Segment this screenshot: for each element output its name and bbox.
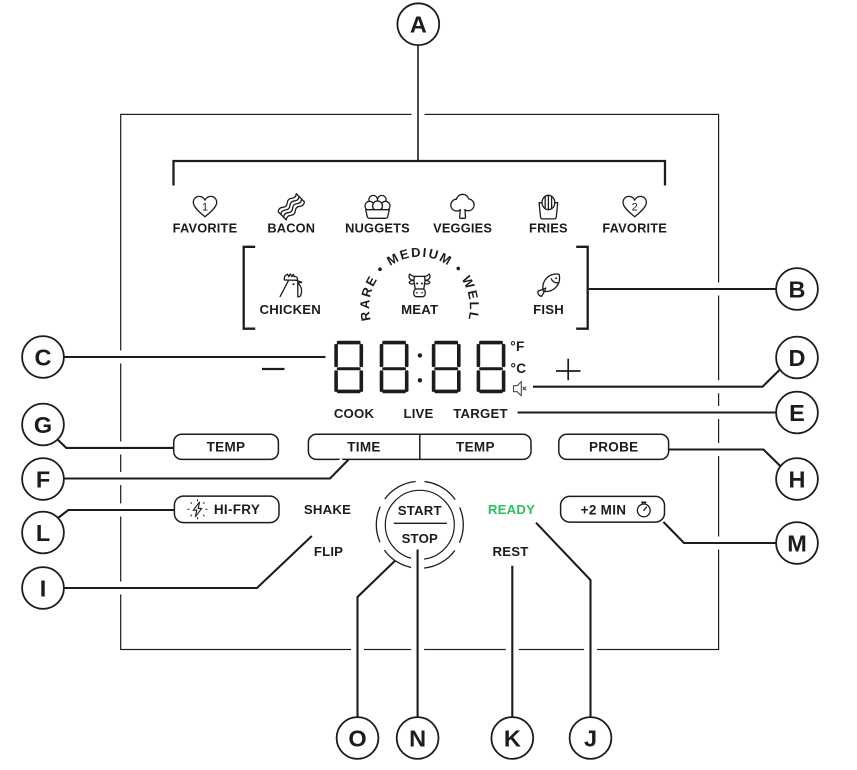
- svg-text:TEMP: TEMP: [207, 440, 246, 455]
- svg-text:L: L: [36, 520, 50, 546]
- svg-text:°F: °F: [510, 339, 524, 354]
- svg-text:FLIP: FLIP: [314, 544, 343, 559]
- svg-text:MEAT: MEAT: [401, 302, 438, 317]
- svg-text:E: E: [789, 400, 805, 426]
- svg-text:CHICKEN: CHICKEN: [260, 302, 321, 317]
- svg-text:J: J: [584, 725, 597, 751]
- svg-text:+2 MIN: +2 MIN: [581, 502, 627, 517]
- svg-text:READY: READY: [488, 502, 535, 517]
- svg-text:TARGET: TARGET: [453, 406, 507, 421]
- svg-text:TIME: TIME: [347, 440, 380, 455]
- svg-text:COOK: COOK: [334, 406, 375, 421]
- svg-text:NUGGETS: NUGGETS: [345, 220, 410, 235]
- svg-text:M: M: [787, 530, 807, 556]
- svg-text:O: O: [348, 725, 366, 751]
- svg-text:C: C: [35, 344, 52, 370]
- svg-text:K: K: [504, 725, 521, 751]
- svg-text:F: F: [36, 466, 50, 492]
- svg-text:H: H: [789, 466, 806, 492]
- svg-text:FAVORITE: FAVORITE: [602, 220, 667, 235]
- svg-text:FRIES: FRIES: [529, 220, 568, 235]
- svg-text:A: A: [410, 12, 427, 38]
- svg-text:G: G: [34, 412, 52, 438]
- svg-text:1: 1: [202, 201, 208, 213]
- svg-text:HI-FRY: HI-FRY: [214, 502, 260, 517]
- svg-text:N: N: [409, 725, 426, 751]
- svg-text:PROBE: PROBE: [589, 440, 639, 455]
- svg-text:START: START: [398, 503, 442, 518]
- svg-text:SHAKE: SHAKE: [304, 502, 351, 517]
- svg-text:LIVE: LIVE: [403, 406, 433, 421]
- svg-text:TEMP: TEMP: [456, 440, 495, 455]
- svg-text:BACON: BACON: [267, 220, 315, 235]
- svg-text:FISH: FISH: [533, 302, 564, 317]
- svg-text:D: D: [789, 345, 806, 371]
- svg-text:FAVORITE: FAVORITE: [173, 220, 238, 235]
- svg-text:STOP: STOP: [402, 531, 438, 546]
- svg-text:B: B: [789, 276, 806, 302]
- svg-text:VEGGIES: VEGGIES: [433, 220, 492, 235]
- svg-text:I: I: [40, 575, 47, 601]
- svg-text:2: 2: [632, 201, 638, 213]
- svg-text:REST: REST: [493, 544, 529, 559]
- svg-text:°C: °C: [511, 361, 527, 376]
